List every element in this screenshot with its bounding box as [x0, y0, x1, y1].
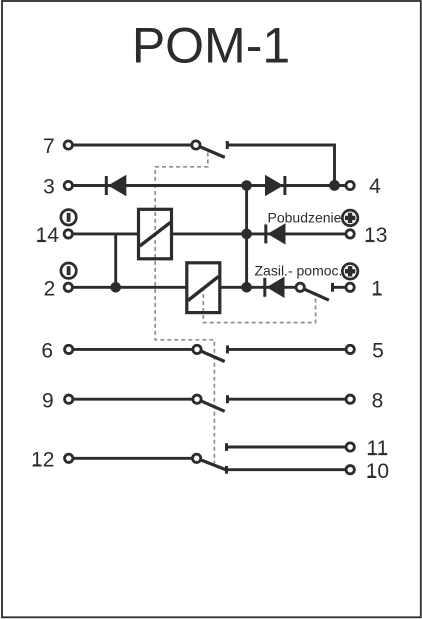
switch row 12 pivot circle	[192, 454, 200, 462]
switch row 11 fixed contact tick	[225, 443, 228, 451]
wire row 8 to terminal	[228, 398, 351, 401]
svg-text:12: 12	[31, 449, 54, 472]
terminal 2	[44, 278, 73, 301]
wire row 2 from terminal to relay K2	[68, 286, 187, 289]
switch row 9 fixed contact tick	[226, 395, 229, 403]
wire row 11 to terminal	[227, 446, 351, 449]
svg-text:Zasil.- pomoc.: Zasil.- pomoc.	[255, 262, 343, 278]
wire row 13 from relay K1 to terminal 13	[171, 232, 350, 235]
relay body backgrounds	[139, 209, 172, 258]
relay coil K1	[139, 209, 172, 258]
vertical bus x=246.6 connecting rows 3,13,1	[245, 186, 248, 288]
junction node row2 link	[110, 282, 121, 293]
svg-text:Pobudzenie: Pobudzenie	[268, 209, 342, 225]
switch row 9 pivot circle	[193, 395, 201, 403]
diode D1 row 3 pointing left	[106, 175, 126, 196]
diode D4 row 1 pointing left	[265, 277, 285, 298]
wire row 14 from terminal to relay K1	[68, 232, 139, 235]
junction node row1/bus	[241, 282, 252, 293]
svg-text:6: 6	[41, 340, 53, 363]
wire row 7 from terminal 7 to switch pivot	[68, 144, 196, 147]
wire row 5 to terminal	[228, 348, 351, 351]
switch row 10 fixed contact tick	[225, 466, 228, 474]
vertical link row14 to row2 at x=115.7	[114, 234, 117, 287]
wire row 1 from relay K2 to switch	[219, 286, 300, 289]
terminal 8	[346, 389, 383, 412]
terminal 13	[346, 224, 387, 247]
switch row 7 pivot circle	[192, 141, 200, 149]
switch contact of K2 in row 1: blade	[300, 287, 329, 300]
svg-text:8: 8	[372, 389, 384, 412]
switch contact of K1 in row 7: blade	[196, 145, 225, 157]
wire row 12 left	[69, 457, 197, 460]
plus symbol above terminal 1	[342, 264, 358, 280]
svg-text:3: 3	[43, 176, 55, 199]
terminal 10	[346, 460, 389, 483]
terminal 11	[346, 437, 388, 460]
terminal 14	[36, 224, 73, 247]
terminal 9	[42, 389, 73, 412]
switch row 1 pivot circle	[296, 283, 304, 291]
switch contact of K1 in row 12: blade closed to row 10	[197, 458, 227, 470]
junction node row3/bus	[241, 180, 252, 191]
terminal 6	[41, 340, 72, 363]
switch row 1 fixed contact tick	[331, 283, 334, 292]
wire row 6 left	[69, 348, 197, 351]
terminal 7	[43, 135, 72, 158]
svg-text:7: 7	[43, 135, 55, 158]
serif feet for digit 1 glyphs (label font style)	[33, 240, 387, 478]
junction node row3/row7 drop near terminal 4	[329, 180, 340, 191]
relay coil K2	[187, 263, 220, 313]
svg-text:5: 5	[372, 340, 384, 363]
svg-text:POM-1: POM-1	[132, 17, 290, 73]
svg-text:1: 1	[371, 278, 383, 301]
mechanical linkage (dashed) of relay K2 to switch row 1	[203, 289, 315, 323]
svg-text:9: 9	[42, 389, 54, 412]
switch row 6 fixed contact tick	[226, 345, 229, 353]
terminal 5	[346, 340, 384, 363]
diode D2 row 3 pointing right	[265, 175, 285, 196]
terminal 4	[346, 175, 381, 198]
plus symbol above terminal 13	[342, 210, 358, 226]
wire row 9 left	[69, 398, 197, 401]
wire row 3 from terminal 3 to node, through diodes	[68, 184, 350, 187]
wire row 1 tick to terminal 1	[333, 286, 351, 289]
terminal 3	[43, 176, 72, 199]
terminal 12	[31, 449, 73, 472]
switch row 6 pivot circle	[193, 345, 201, 353]
svg-text:11: 11	[366, 437, 388, 460]
svg-text:4: 4	[369, 175, 381, 198]
switch contact of K1 in row 9: blade	[197, 399, 225, 411]
wire row 10 to terminal	[227, 468, 351, 471]
svg-text:14: 14	[36, 224, 60, 247]
junction node row13/bus	[241, 229, 252, 240]
mechanical linkage (dashed) of relay K1 to switches rows 7,6,9,12	[155, 153, 214, 464]
switch row 7 fixed contact tick	[226, 141, 229, 149]
svg-text:13: 13	[364, 224, 387, 247]
svg-text:2: 2	[44, 278, 56, 301]
switch contact of K1 in row 6: blade	[197, 349, 225, 361]
diode D3 row 13 pointing left	[266, 223, 286, 244]
svg-text:10: 10	[366, 460, 389, 483]
polarity symbol above terminal 2	[61, 263, 76, 278]
polarity symbol above terminal 14	[61, 210, 76, 225]
wire row 7 from fixed contact right then down to row 3 node	[227, 145, 334, 186]
terminal 1	[346, 278, 383, 301]
